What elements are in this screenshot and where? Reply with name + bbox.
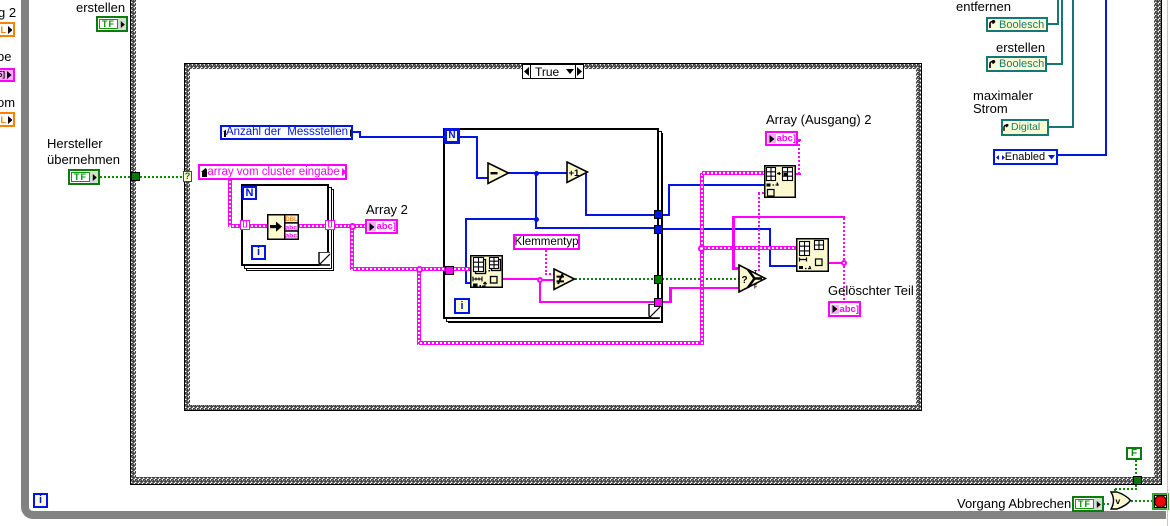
svg-text:?: ? xyxy=(742,275,748,286)
svg-text:DBL: DBL xyxy=(285,217,298,223)
svg-text:abc: abc xyxy=(285,224,297,231)
svg-text:v: v xyxy=(1116,496,1121,506)
svg-text:F: F xyxy=(754,285,758,291)
svg-text:abc: abc xyxy=(285,233,297,240)
svg-text:+1: +1 xyxy=(569,168,581,179)
